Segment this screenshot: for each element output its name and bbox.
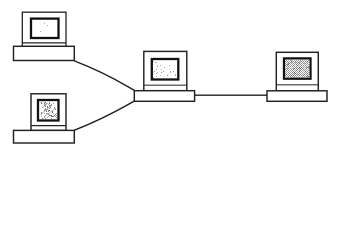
workstation PC2 (bottom-left) monitor outer box — [31, 94, 66, 131]
workstation PC2 screen — [38, 100, 59, 121]
workstation PC1 screen speckles — [40, 23, 48, 32]
workstation PC1 bezel line — [22, 42, 66, 44]
workstation PC4 screen speckle — [285, 61, 310, 78]
workstation PC2 base — [14, 130, 75, 143]
workstation PC1 (top-left) monitor outer box — [22, 12, 66, 46]
workstation PC3 bezel line — [144, 84, 187, 86]
wire: PC1 base to PC3 base (diagonal) — [74, 61, 134, 91]
wire: PC3 base to PC4 base (horizontal) — [195, 94, 267, 96]
workstation PC4 base — [267, 91, 327, 102]
workstation PC4 bezel line — [276, 84, 318, 86]
workstation PC3 base — [134, 91, 194, 102]
workstation PC4 (right) monitor outer box — [276, 52, 318, 91]
wire: PC2 base to PC3 base (diagonal) — [74, 101, 134, 130]
workstation PC3 screen speckle — [153, 62, 176, 78]
workstation PC2 screen speckle — [41, 103, 57, 119]
workstation PC3 (middle) monitor outer box — [144, 51, 187, 90]
workstation PC1 base — [14, 46, 75, 60]
workstation PC2 bezel line — [31, 125, 66, 127]
workstation PC3 screen — [152, 59, 179, 80]
workstation PC4 screen — [284, 58, 311, 78]
workstation PC1 screen — [31, 19, 59, 38]
